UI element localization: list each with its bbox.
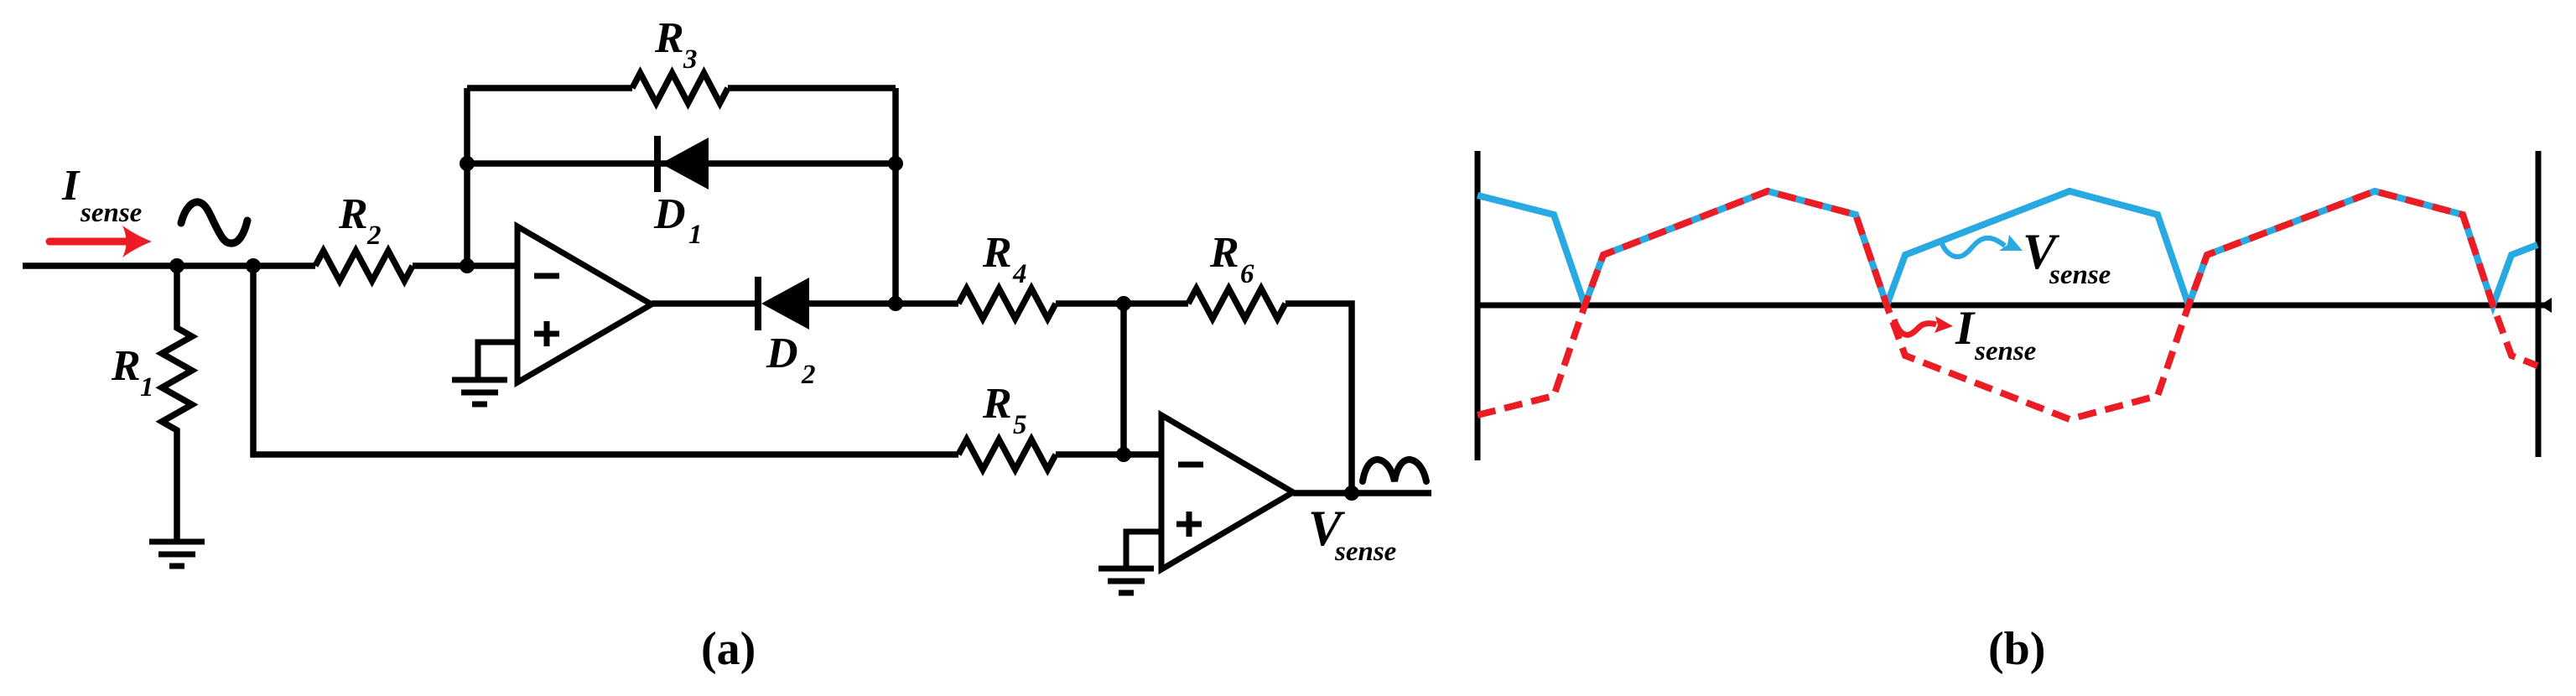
resistor R2 bbox=[315, 251, 413, 281]
resistor R1 bbox=[162, 266, 192, 540]
svg-text:R: R bbox=[1209, 229, 1239, 277]
wire node to R6 bbox=[1124, 300, 1188, 307]
svg-text:R: R bbox=[338, 190, 368, 238]
svg-text:sense: sense bbox=[1334, 537, 1396, 567]
V_sense waveform blue bbox=[1478, 191, 2537, 305]
resistor R6 bbox=[1188, 288, 1285, 319]
svg-text:D: D bbox=[653, 190, 686, 238]
wire op1 output bbox=[652, 300, 758, 307]
svg-text:1: 1 bbox=[688, 220, 703, 250]
wire R4 to node bbox=[1056, 300, 1124, 307]
node R5-U2 bbox=[1116, 447, 1131, 462]
svg-text:4: 4 bbox=[1012, 259, 1027, 289]
op-amp U2 bbox=[1161, 415, 1293, 569]
svg-text:R: R bbox=[654, 14, 684, 62]
plot horizontal axis bbox=[1478, 303, 2549, 309]
node R4-R6 bbox=[1116, 296, 1131, 311]
diode D1 bbox=[657, 136, 709, 192]
svg-text:2: 2 bbox=[801, 360, 816, 390]
svg-text:I: I bbox=[61, 162, 80, 210]
node D1 left bbox=[460, 156, 475, 171]
arrow V_sense pointer bbox=[1942, 235, 2023, 257]
I_sense waveform red dashed bbox=[1478, 191, 2537, 419]
svg-text:(b): (b) bbox=[1988, 623, 2045, 675]
svg-text:R: R bbox=[111, 342, 141, 390]
svg-text:3: 3 bbox=[683, 44, 698, 75]
wire R5 to op2 bbox=[1056, 451, 1161, 458]
plot left axis bbox=[1475, 151, 1481, 460]
svg-text:2: 2 bbox=[366, 221, 382, 251]
rectified symbol output bbox=[1363, 460, 1426, 481]
node D2-R4 bbox=[888, 296, 903, 311]
node main-R1 bbox=[169, 258, 184, 273]
ground op1 non-inverting bbox=[452, 342, 517, 404]
svg-text:D: D bbox=[766, 330, 798, 377]
svg-text:sense: sense bbox=[80, 198, 142, 228]
wire node to R4 bbox=[896, 300, 958, 307]
svg-text:I: I bbox=[1955, 302, 1976, 355]
wire R3 right bbox=[728, 85, 896, 91]
plot right axis bbox=[2536, 151, 2542, 457]
wire D1 row bbox=[467, 160, 896, 167]
diode D2 bbox=[758, 277, 809, 330]
svg-text:(a): (a) bbox=[701, 623, 756, 675]
sine symbol input bbox=[181, 202, 247, 243]
node main-R5 bbox=[246, 258, 261, 273]
svg-text:R: R bbox=[982, 380, 1012, 428]
plot axis arrowhead bbox=[2540, 298, 2552, 313]
wire main input bbox=[23, 262, 315, 269]
wire node down to R5 row bbox=[1120, 304, 1127, 454]
wire R2 to op-amp bbox=[413, 262, 517, 269]
svg-text:1: 1 bbox=[140, 372, 154, 403]
node inverting U1 bbox=[460, 258, 475, 273]
resistor R3 bbox=[632, 73, 728, 103]
svg-text:R: R bbox=[982, 229, 1012, 277]
wire R3 left bbox=[467, 85, 632, 91]
wire inverting node up bbox=[464, 88, 470, 266]
svg-text:sense: sense bbox=[1974, 336, 2036, 366]
resistor R5 bbox=[958, 439, 1056, 470]
arrow I_sense pointer bbox=[1894, 316, 1953, 335]
node D1 right bbox=[888, 156, 903, 171]
wire right vertical D1/R3 bbox=[892, 88, 899, 304]
wire input node down and R5 row bbox=[253, 266, 958, 454]
ground op2 non-inverting bbox=[1098, 532, 1161, 593]
svg-text:5: 5 bbox=[1013, 410, 1027, 440]
wire D2 to node bbox=[809, 300, 896, 307]
svg-text:6: 6 bbox=[1240, 259, 1254, 289]
wire R6 right and down to output bbox=[1285, 304, 1352, 493]
op-amp U1 bbox=[517, 226, 652, 382]
arrow I_sense bbox=[49, 226, 152, 257]
wire op2 output bbox=[1293, 490, 1431, 496]
resistor R4 bbox=[958, 288, 1056, 319]
svg-text:sense: sense bbox=[2049, 260, 2111, 290]
ground R1 bbox=[149, 542, 205, 566]
node output bbox=[1344, 486, 1359, 501]
